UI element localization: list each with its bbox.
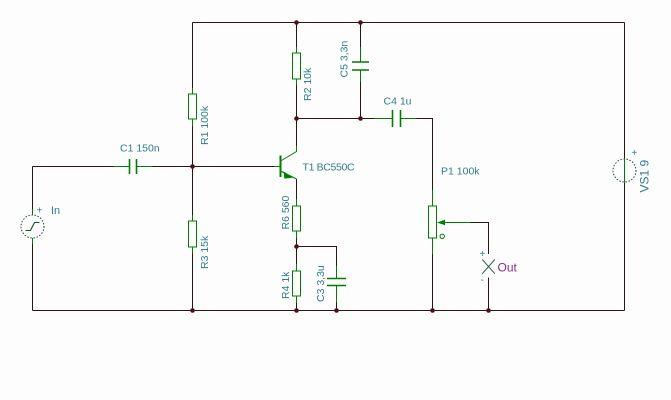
wire emitter node to C3 branch (297, 247, 337, 267)
wire wiper to out corner (471, 223, 489, 255)
wire In source bottom (32, 244, 34, 311)
svg-text:C4 1u: C4 1u (384, 96, 412, 108)
junction node P1 bottom (430, 308, 435, 313)
svg-text:VS1 9: VS1 9 (638, 159, 652, 192)
svg-text:T1 BC550C: T1 BC550C (303, 162, 355, 174)
wire top rail (193, 22, 625, 24)
wire left column top (to R1) (192, 23, 194, 89)
capacitor C3 (327, 266, 346, 302)
wire out marker to bottom rail (488, 278, 490, 311)
svg-text:In: In (51, 205, 60, 217)
junction node Out bottom (486, 308, 491, 313)
svg-text:C1 150n: C1 150n (120, 143, 160, 155)
wire C4 to P1 column (417, 119, 433, 191)
junction node R3 bottom (190, 308, 195, 313)
wire VS1 top (624, 23, 626, 159)
svg-text:+: + (632, 148, 638, 159)
svg-text:R6 560: R6 560 (280, 195, 292, 229)
transistor T1 (275, 146, 297, 179)
svg-text:C5 3,3n: C5 3,3n (339, 41, 351, 78)
svg-text:P1 100k: P1 100k (441, 166, 480, 178)
wire In source top (32, 167, 34, 210)
svg-text:R2 10k: R2 10k (302, 67, 314, 101)
resistor R2 (293, 47, 301, 85)
wire C3 bottom (336, 302, 338, 311)
resistor R3 (189, 215, 197, 253)
svg-text:R4 1k: R4 1k (280, 271, 292, 299)
wire input row left (33, 166, 114, 168)
wire C5 bottom (360, 82, 362, 119)
wire C5 node to C4 (361, 118, 375, 120)
wire bottom rail (33, 310, 625, 312)
resistor R6 (293, 199, 301, 238)
svg-text:C3 3,3u: C3 3,3u (315, 265, 327, 302)
junction node collector (294, 116, 299, 121)
wire R6 to emitter node (296, 238, 298, 247)
svg-text:+: + (37, 206, 43, 217)
junction node C5-C4 (358, 116, 363, 121)
wire C5 top (360, 23, 362, 48)
svg-text:Out: Out (498, 261, 518, 275)
wire R2 bottom to collector node (296, 85, 298, 146)
wire R4 bottom (296, 303, 298, 311)
capacitor C1 (114, 159, 153, 174)
node Out marker (482, 260, 495, 274)
wire collector node to C5 node (297, 118, 361, 120)
junction node top R2 (294, 20, 299, 25)
capacitor C5 (352, 47, 369, 82)
wire base node to T1 base (193, 166, 275, 168)
generator VG In (21, 209, 44, 244)
junction node emitter (294, 244, 299, 249)
resistor R1 (189, 88, 197, 126)
wire C1 to base node (153, 166, 193, 168)
wire emitter node to R4 (296, 247, 298, 265)
resistor R4 (293, 264, 301, 303)
wire VS1 bottom (624, 183, 626, 311)
junction node C3 bottom (334, 308, 339, 313)
svg-text:R3 15k: R3 15k (199, 235, 211, 269)
wire P1 bottom (432, 254, 434, 311)
junction node base (190, 164, 195, 169)
capacitor C4 (375, 110, 417, 127)
junction node R4 bottom (294, 308, 299, 313)
svg-text:+: + (480, 249, 486, 260)
potentiometer P1 (429, 190, 471, 254)
wire emitter down to R6 (296, 179, 298, 199)
wire R2 top (296, 23, 298, 48)
wire R1 to R3 through base node (192, 126, 194, 215)
svg-text:-: - (481, 275, 484, 286)
wire R3 bottom to bottom rail (192, 253, 194, 311)
svg-text:R1 100k: R1 100k (199, 105, 211, 145)
voltage source VS1 (613, 158, 636, 183)
junction node top C5 (358, 20, 363, 25)
